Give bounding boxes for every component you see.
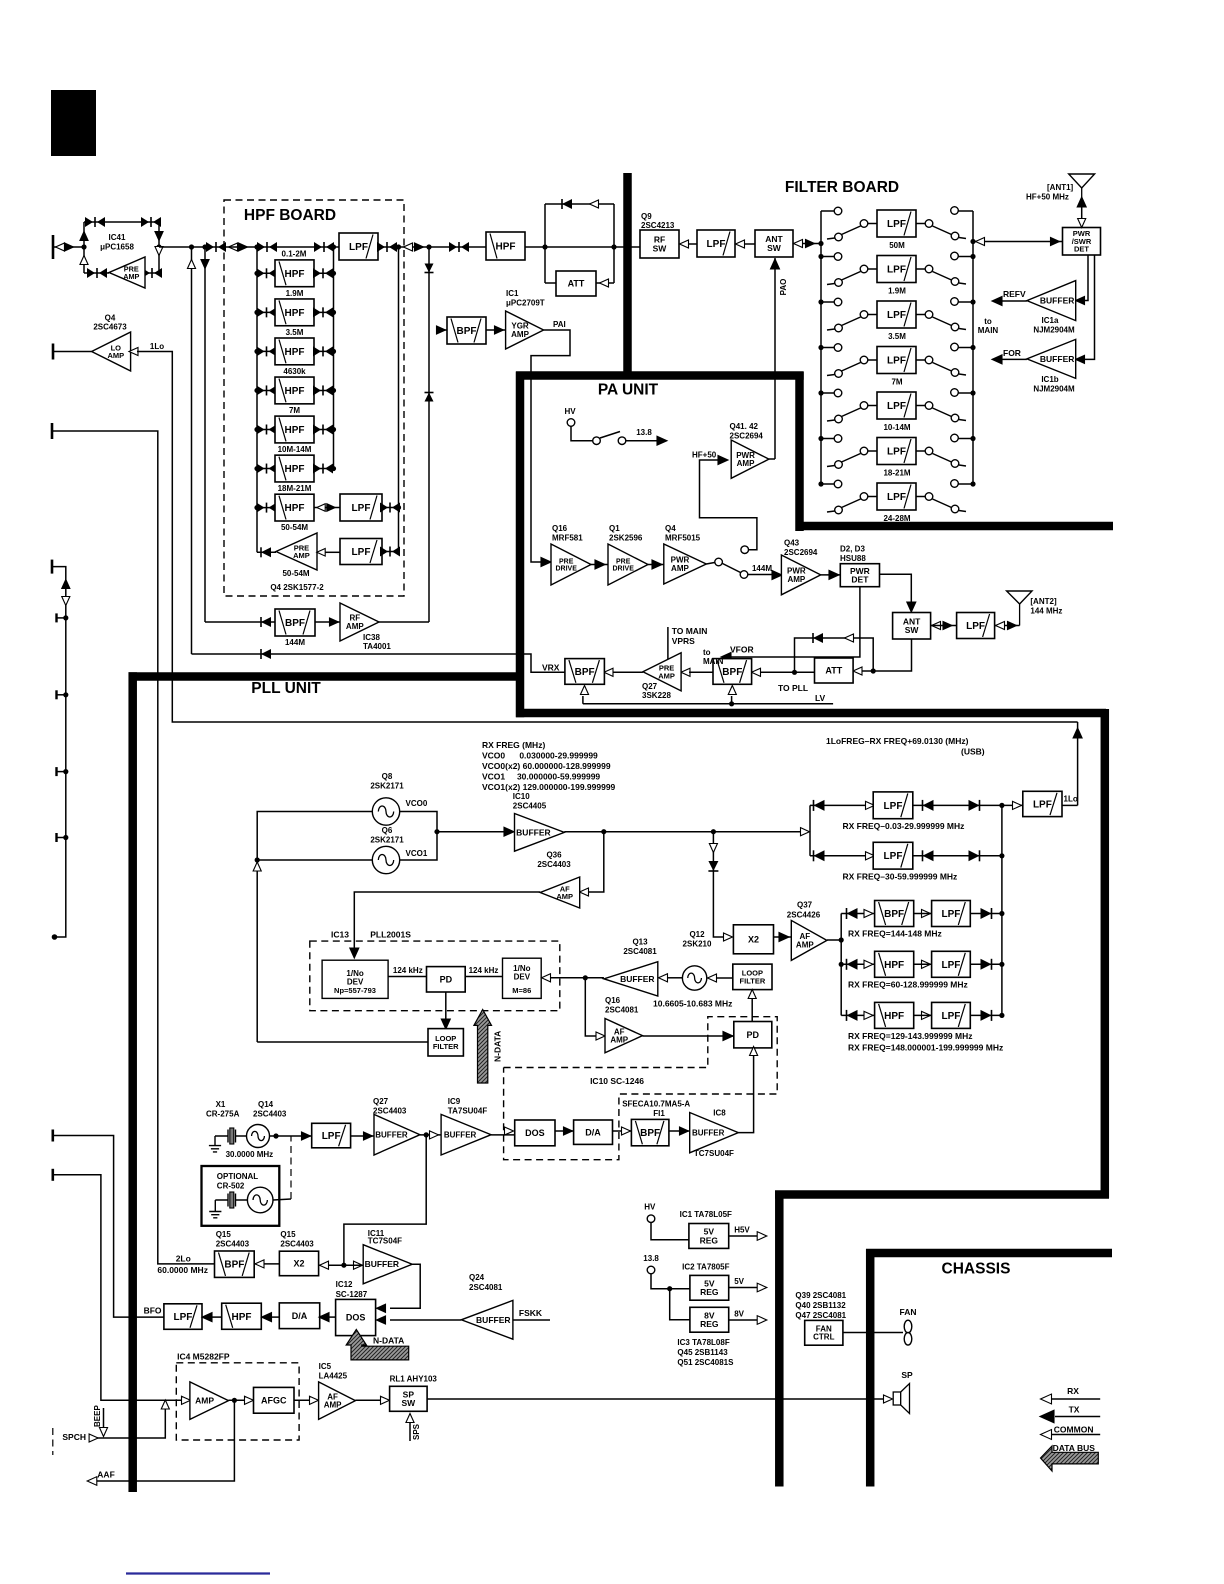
arrow open right row D in2 [864, 960, 873, 968]
wire frow 6 R-low tail [959, 465, 966, 466]
junction frow 6 left [818, 436, 823, 441]
wire Q36 drop [588, 832, 604, 892]
border PA UNIT bottom [516, 709, 1106, 718]
junction out bus top [396, 244, 401, 249]
junction X2 drop [711, 829, 716, 834]
svg-text:ATT: ATT [568, 279, 585, 289]
switch contact HF/144 b [740, 571, 748, 579]
wire CR-502 out [273, 1199, 291, 1200]
junction left bus top [254, 244, 259, 249]
filter BPF PA2 [713, 659, 752, 685]
svg-text:SC-1287: SC-1287 [336, 1290, 368, 1299]
svg-text:IC1: IC1 [506, 289, 519, 298]
svg-text:SW: SW [905, 625, 920, 635]
arrow filled right into Q43 [772, 571, 782, 580]
arrow open left LPF2-ANT2 [996, 621, 1005, 629]
wire VCO1 right [400, 832, 437, 860]
border PA UNIT left [516, 372, 525, 718]
oscillator Q12 [682, 966, 706, 990]
svg-text:Q16: Q16 [552, 524, 568, 533]
wire DET to buffer1 [1084, 255, 1088, 301]
junction TO PLL [792, 670, 797, 675]
svg-text:IC9: IC9 [448, 1097, 461, 1106]
speaker SP [893, 1384, 909, 1414]
oscillator Q8 VCO0 [372, 798, 399, 825]
switch pivot right row 7 [925, 493, 933, 501]
svg-text:2SK2596: 2SK2596 [609, 534, 643, 543]
svg-text:IC38: IC38 [363, 633, 380, 642]
junction [393, 244, 398, 249]
svg-text:LV: LV [815, 693, 826, 703]
wire connector tick 1 [57, 617, 66, 619]
wire IC11 out to DOS [390, 1264, 420, 1308]
svg-text:PAI: PAI [553, 320, 566, 329]
filter HPF 50-54M [275, 494, 314, 521]
switch contact L-top row 7 [834, 480, 842, 488]
amplifier IC9 BUFFER [441, 1114, 491, 1155]
arrow filled right LPF2-ANT2 [1008, 621, 1017, 629]
wire Q36 out to DEV1 [354, 892, 540, 948]
svg-text:PD: PD [747, 1030, 760, 1040]
terminal column bottom dot [52, 934, 58, 940]
wire FANCTRL to fan [843, 1332, 903, 1334]
arrow open down BEEP [99, 1428, 107, 1437]
wire preamp50 row [257, 551, 276, 553]
wire H5V out [729, 1235, 762, 1237]
diode row A out1 [923, 800, 934, 811]
svg-text:CHASSIS: CHASSIS [942, 1261, 1011, 1278]
arrow filled left LPF-HPF bfo [202, 1313, 212, 1322]
arrow open right into IC11 [354, 1261, 363, 1269]
svg-text:LPF: LPF [887, 265, 906, 276]
wire BFO feed [52, 1136, 164, 1318]
switch contact R-top row 3 [951, 298, 959, 306]
arrow open down to DET [1078, 219, 1086, 228]
arrow open right into SPSW [381, 1396, 390, 1404]
switch contact HF/144 c [741, 546, 749, 554]
terminal RF input [52, 235, 55, 259]
svg-text:AMP: AMP [511, 330, 529, 339]
transistor Q43 PWR AMP [781, 555, 820, 595]
wire split to IC11 [344, 1264, 363, 1266]
transistor Q37 AF AMP [791, 920, 827, 960]
arrow filled right row7 [327, 504, 335, 512]
arrow open down connector column [62, 597, 70, 606]
wire bypass top [545, 203, 614, 205]
wire frow 7 left stub [821, 483, 834, 485]
arrow open left into BPF2 [752, 668, 761, 676]
border FILTER BOARD bottom [796, 522, 1114, 531]
filter HPF 3.5M [275, 299, 314, 326]
switch blade right row 3 [933, 317, 952, 326]
switch blade left row 1 [842, 226, 861, 235]
svg-text:HF+50: HF+50 [692, 451, 717, 460]
arrow open left row7 [317, 504, 325, 512]
arrow filled left DA-DOS bfo [319, 1313, 329, 1322]
svg-text:2SC4426: 2SC4426 [787, 911, 821, 920]
pin bar tick 2 [55, 690, 57, 699]
diode 144M in [261, 617, 271, 627]
filter LPF row E [932, 1002, 971, 1028]
svg-text:Q24: Q24 [469, 1273, 485, 1282]
svg-text:Q37: Q37 [797, 901, 813, 910]
svg-text:AMP: AMP [610, 1036, 628, 1045]
arrow filled left legend TX [1040, 1410, 1054, 1423]
switch contact R-top row 5 [951, 389, 959, 397]
wire ATT out [596, 282, 614, 284]
wire filter out bus [1001, 805, 1003, 1015]
transistor Q27 PRE AMP [643, 653, 681, 691]
filter LPF preamp50 [340, 539, 382, 565]
wire legend TX [1055, 1416, 1100, 1418]
svg-text:LPF: LPF [887, 492, 906, 503]
junction VCO return [255, 857, 260, 862]
wire SPS [409, 1422, 411, 1441]
filter BPF TX [447, 317, 486, 344]
wire BPF144 to RFAMP [315, 621, 340, 623]
wire VRX line [192, 654, 565, 672]
wire frow 1 into LPF [868, 223, 877, 225]
junction frow 7 left [818, 481, 823, 486]
switch ANT SW PA [893, 613, 931, 640]
switch contact L-top row 6 [834, 435, 842, 443]
wire frow 3 from LPF [916, 314, 925, 316]
terminal column top [51, 560, 54, 574]
arrow open right row E in2 [864, 1011, 873, 1019]
svg-text:BUFFER: BUFFER [516, 827, 550, 837]
switch blade left row 6 [842, 454, 861, 463]
filter BPF 2Lo [215, 1251, 255, 1277]
wire frow 5 right stub [959, 392, 974, 394]
wire AAF [96, 1400, 234, 1481]
svg-text:ATT: ATT [825, 666, 842, 676]
arrow filled left VFOR [721, 653, 731, 662]
svg-text:LPF: LPF [352, 503, 371, 514]
dds DOS BFO IC12 [336, 1299, 376, 1335]
svg-text:BUFFER: BUFFER [692, 1128, 725, 1137]
dds DOS sc1246 [515, 1120, 555, 1146]
regulator 8V REG [690, 1307, 729, 1332]
wire HPF row 6 left stub [257, 468, 275, 470]
wire final LPF out [1062, 804, 1078, 806]
wire row7 to LPF [314, 507, 340, 509]
svg-text:DOS: DOS [346, 1313, 366, 1323]
svg-text:DRIVE: DRIVE [612, 566, 634, 573]
svg-text:Q45 2SB1143: Q45 2SB1143 [677, 1348, 728, 1357]
wire row C in [841, 913, 874, 915]
svg-text:N-DATA: N-DATA [373, 1336, 404, 1346]
svg-text:FSKK: FSKK [519, 1308, 543, 1318]
junction frow 5 right [970, 390, 975, 395]
diode bypass top [562, 199, 572, 209]
svg-text:REG: REG [700, 1235, 719, 1245]
filter BPF FI1 [631, 1119, 669, 1145]
op-amp IC1b BUFFER [1027, 339, 1076, 378]
switch blade right row 5 [933, 408, 952, 417]
junction row 3 left [254, 349, 259, 354]
junction row D tap [839, 962, 844, 967]
crystal CR-502 [215, 1192, 247, 1208]
controller FAN CTRL [805, 1320, 843, 1345]
wire frow 4 L-low tail [827, 375, 835, 376]
diode pair row 5 out [313, 425, 333, 435]
detector PWR/SWR DET [1063, 228, 1101, 256]
svg-text:2SK2171: 2SK2171 [370, 836, 404, 845]
wire connector tick 2 [57, 694, 66, 696]
border chassis step horizontal [775, 1190, 1109, 1199]
wire LPF30 to Q27buf [351, 1135, 374, 1137]
diode pair row 1 in [257, 268, 277, 278]
wire row E mid [914, 1014, 932, 1016]
wire connector tick 3 [57, 771, 66, 773]
border PLL UNIT top [129, 672, 525, 681]
svg-text:IC13: IC13 [331, 930, 349, 940]
arrow open left into ATT [853, 667, 862, 675]
filter HPF row E [875, 1002, 914, 1028]
svg-text:HPF: HPF [285, 386, 305, 397]
wire split to X2 [319, 1264, 344, 1266]
wire frow 5 L-low tail [827, 420, 835, 421]
wire LV [583, 703, 833, 705]
wire frow 1 left stub [821, 210, 834, 212]
arrow open right row E mid [922, 1011, 931, 1019]
arrow open right into DOS1 [505, 1127, 514, 1135]
svg-text:0.1-2M: 0.1-2M [282, 250, 307, 259]
regulator 5V REG [690, 1275, 729, 1300]
wire frow 7 L-low tail [827, 511, 835, 512]
junction ATT bypass right [871, 668, 876, 673]
filter LPF 30M [312, 1123, 351, 1148]
arrow open left bypass top [590, 200, 599, 208]
diode pair row 7 in [257, 503, 277, 513]
svg-text:2SC4081: 2SC4081 [623, 947, 657, 956]
svg-text:SW: SW [401, 1398, 416, 1408]
svg-text:2SC4403: 2SC4403 [216, 1240, 250, 1249]
arrow open left bus-DET [976, 237, 985, 245]
terminal BFO [51, 1130, 54, 1142]
arrow open left at ANTSW [794, 239, 803, 247]
wire to final LPF [1002, 804, 1023, 806]
svg-text:X2: X2 [293, 1259, 304, 1269]
svg-text:X1: X1 [216, 1100, 226, 1109]
transistor Q16 AF AMP [605, 1019, 643, 1053]
svg-text:1LoFREG–RX FREQ+69.0130 (MHz): 1LoFREG–RX FREQ+69.0130 (MHz) [826, 736, 969, 746]
attenuator ATT [556, 271, 596, 296]
amplifier IC4 AMP [190, 1382, 229, 1420]
switch pivot right row 5 [925, 402, 933, 410]
filter BPF VRX [565, 659, 605, 685]
filter LPF 50-54M [340, 494, 382, 521]
regulator 5V REG H [689, 1224, 729, 1249]
arrow filled right into Q27buf [364, 1132, 373, 1140]
wire PD2 to LF2 [751, 996, 753, 1022]
svg-text:AMP: AMP [737, 459, 755, 468]
arrow open left ATT bypass [845, 634, 854, 642]
svg-text:Q4: Q4 [105, 314, 116, 323]
svg-text:SW: SW [653, 243, 668, 253]
svg-text:Q47 2SC4081: Q47 2SC4081 [795, 1311, 846, 1320]
diode pair row 2 out [313, 307, 333, 317]
junction frow 3 left [818, 299, 823, 304]
wire frow 5 into LPF [868, 405, 877, 407]
wire HPF row 4 left stub [257, 389, 275, 391]
switch blade HF144 [723, 564, 741, 573]
doubler X2 pll [733, 925, 773, 954]
wire HV to switch [571, 427, 593, 441]
arrow open down X2 drop a [709, 844, 717, 853]
svg-text:10M-14M: 10M-14M [278, 445, 312, 454]
svg-text:HPF: HPF [884, 960, 904, 971]
wire VRX drop vertical [191, 247, 193, 654]
switch pivot right row 6 [925, 447, 933, 455]
junction 2Lo split [341, 1263, 346, 1268]
svg-text:DRIVE: DRIVE [555, 566, 577, 573]
svg-text:10-14M: 10-14M [883, 423, 910, 432]
svg-text:RX FREQ=148.000001-199.999999: RX FREQ=148.000001-199.999999 MHz [848, 1043, 1003, 1053]
svg-text:2SC4403: 2SC4403 [373, 1107, 407, 1116]
wire row CDE bus [840, 914, 842, 1016]
svg-text:3SK228: 3SK228 [642, 691, 671, 700]
wire VCO0 right [400, 812, 437, 832]
svg-text:FI1: FI1 [653, 1109, 665, 1118]
switch contact 13.8 b [618, 437, 626, 445]
wire frow 4 from LPF [916, 359, 925, 361]
wire row A out [913, 804, 1002, 806]
amplifier Q4 LO AMP [92, 332, 131, 371]
svg-text:4630k: 4630k [283, 367, 306, 376]
switch blade left row 4 [842, 363, 861, 372]
svg-text:PLL2001S: PLL2001S [370, 930, 411, 940]
svg-text:2SK210: 2SK210 [683, 940, 712, 949]
diode pair row 2 in [257, 307, 277, 317]
arrow filled right into RF AMP [330, 618, 339, 626]
arrow open right 8V [757, 1316, 767, 1325]
wire PAO [774, 258, 776, 459]
junction row 2 right [331, 310, 336, 315]
arrow open left Q13 in [659, 974, 668, 982]
svg-text:2SC2694: 2SC2694 [784, 548, 818, 557]
svg-text:2SC4213: 2SC4213 [641, 221, 675, 230]
terminal 13.8 reg [647, 1266, 655, 1274]
amplifier PRE AMP 50-54M [276, 533, 317, 570]
svg-text:18-21M: 18-21M [883, 469, 910, 478]
junction frow 3 right [970, 299, 975, 304]
junction row7 out [396, 505, 401, 510]
wire 1Lo riser to LPF output [1077, 722, 1079, 805]
switch contact L-top row 2 [834, 253, 842, 261]
wire row B out [913, 855, 1002, 857]
wire frow 2 R-low tail [959, 283, 966, 284]
diode pair row 6 in [257, 464, 277, 474]
switch blade left row 5 [842, 408, 861, 417]
svg-text:HF+50 MHz: HF+50 MHz [1026, 193, 1069, 202]
border PA UNIT right / FILTER BOARD left [795, 372, 804, 531]
junction VRX drop [189, 244, 194, 249]
svg-text:LPF: LPF [942, 960, 961, 971]
svg-text:Q43: Q43 [784, 539, 800, 548]
wire LF to Q12 [716, 977, 733, 979]
svg-text:RX FREQ=60-128.999999 MHz: RX FREQ=60-128.999999 MHz [848, 980, 968, 990]
svg-text:AMP: AMP [556, 892, 573, 901]
wire HPF row 5 right stub [314, 429, 334, 431]
switch contact L-top row 3 [834, 298, 842, 306]
arrow open right H5V [757, 1232, 767, 1241]
wire frow 7 from LPF [916, 496, 925, 498]
diode pair preamp50 out [380, 547, 400, 557]
switch contact L-low row 6 [835, 461, 843, 469]
arrow filled right into PWRDET [829, 570, 839, 579]
svg-text:IC10: IC10 [513, 792, 530, 801]
svg-text:13.8: 13.8 [636, 428, 652, 437]
filter BPF 144M [275, 609, 315, 636]
arrow filled up PAO [771, 259, 780, 269]
amplifier IC10 BUFFER [515, 814, 565, 852]
arrow filled up to ANT1 [1077, 197, 1086, 207]
svg-text:to: to [703, 648, 711, 657]
filter HPF 10M-14M [275, 416, 314, 443]
arrow filled right into DET [1051, 237, 1060, 245]
doubler X2 2lo [279, 1251, 318, 1276]
svg-text:TO PLL: TO PLL [778, 683, 808, 693]
border CHASSIS left [866, 1249, 875, 1487]
wire SPSW to speaker [427, 1398, 884, 1400]
svg-text:AMP: AMP [671, 564, 689, 573]
svg-text:(USB): (USB) [961, 747, 985, 757]
wire frow 6 into LPF [868, 450, 877, 452]
wire X2 to BPF 2lo [254, 1263, 279, 1265]
svg-text:LPF: LPF [884, 851, 903, 862]
wire DET to buffer2 [1084, 255, 1095, 359]
svg-text:8V: 8V [734, 1310, 744, 1319]
wire IC41 loop right vertical [158, 222, 160, 273]
svg-text:NJM2904M: NJM2904M [1033, 385, 1075, 394]
svg-text:Q13: Q13 [632, 938, 648, 947]
amplifier IC5 AF AMP [319, 1382, 356, 1420]
HPF BOARD dashed border [224, 200, 404, 596]
switch contact L-low row 3 [835, 324, 843, 332]
wire preamp row left [84, 272, 109, 274]
wire X2 to Q37 [774, 936, 792, 938]
arrow open left ATT out [600, 279, 609, 287]
arrow open left into PREAMP Q27 [681, 668, 690, 676]
wire LV to BPF2 [731, 696, 733, 704]
arrow filled right X2-Q37 [779, 933, 789, 942]
switch pivot left row 7 [860, 493, 868, 501]
diode pair D top-right loop [141, 217, 161, 227]
switch contact L-low row 4 [835, 370, 843, 378]
wire buffer out [564, 831, 810, 833]
wire preamp row right [145, 272, 159, 274]
switch pivot left row 5 [860, 402, 868, 410]
wire HPF row 4 right stub [314, 389, 334, 391]
pin bar tick 4 [55, 833, 57, 842]
svg-text:AMP: AMP [324, 1401, 342, 1410]
arrow filled right into PRE DRIVE1 [541, 558, 551, 567]
svg-text:AAF: AAF [97, 1470, 114, 1480]
svg-text:[ANT2]: [ANT2] [1030, 597, 1057, 606]
wire HPF row 3 left stub [257, 350, 275, 352]
arrow filled right PD2-PA [652, 560, 662, 569]
svg-text:FILTER: FILTER [433, 1042, 459, 1051]
wire main RX line 2 [159, 246, 224, 248]
arrow open into LO AMP [129, 347, 138, 355]
svg-text:AMP: AMP [787, 575, 805, 584]
wire 13.8 to 5Vreg [651, 1274, 690, 1289]
svg-text:REFV: REFV [1003, 289, 1026, 299]
dashed wire CR-502 to main [290, 1136, 292, 1199]
junction tick 4 [63, 835, 68, 840]
junction optional xtal [273, 1133, 278, 1138]
